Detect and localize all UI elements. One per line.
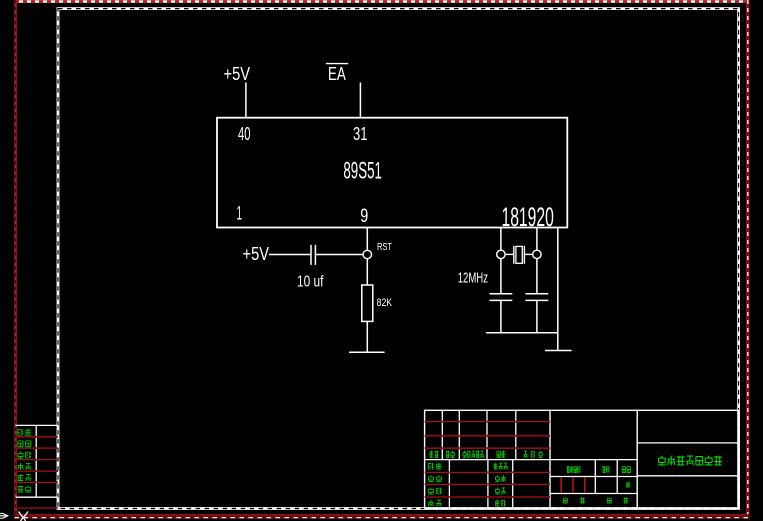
- capacitor C3 plates: [526, 294, 549, 301]
- svg-text:+5V: +5V: [224, 64, 251, 84]
- capacitor C2 plates: [490, 294, 513, 301]
- node RST junction circle: [363, 250, 371, 258]
- revision table verticals: [442, 410, 516, 459]
- svg-text:9: 9: [360, 205, 368, 227]
- middle section green labels: [563, 466, 630, 503]
- svg-text:181920: 181920: [502, 202, 554, 232]
- svg-text:40: 40: [238, 124, 251, 144]
- svg-text:1: 1: [237, 203, 243, 225]
- svg-text:RST: RST: [377, 242, 392, 253]
- revision header green labels: [430, 451, 543, 459]
- crystal Y1 12MHz symbol: [505, 246, 533, 264]
- wire capacitor C1 to RST node: [315, 254, 363, 256]
- title block outer white rect: [425, 410, 739, 508]
- wire pin 20 GND down to ground: [557, 228, 559, 351]
- wire pin 19 down to XTAL2 node: [536, 228, 538, 251]
- svg-text:89S51: 89S51: [343, 157, 382, 184]
- right section cell lines: [637, 443, 738, 476]
- left table red row separators: [16, 437, 58, 508]
- sign area green labels: [428, 463, 508, 507]
- wire capacitor C2 to ground rail: [500, 300, 502, 332]
- wire pin 9 down to RST node: [366, 228, 368, 251]
- node XTAL1 junction circle: [497, 250, 505, 258]
- ground rail wire joining C2 C3 and pin20: [486, 332, 558, 334]
- op chip 89S51 U1 box: [217, 118, 567, 228]
- sign area verticals: [449, 460, 512, 509]
- wire +5V to capacitor C1: [269, 254, 311, 256]
- wire EA to pin 31: [359, 83, 361, 118]
- wire resistor R1 to ground: [366, 321, 368, 352]
- svg-text:EA: EA: [328, 64, 346, 84]
- wire node to resistor R1: [366, 259, 368, 285]
- drawing title green text: [658, 456, 722, 466]
- outer paper border: bottom dark red band with white dashes: [15, 514, 750, 519]
- svg-text:82K: 82K: [377, 297, 393, 309]
- outer paper border: right dark red band with white dashes: [746, 0, 750, 519]
- svg-text:+5V: +5V: [243, 244, 270, 264]
- wire XTAL2 node to capacitor C3: [536, 259, 538, 294]
- title block main vertical dividers: [550, 410, 637, 508]
- middle section grid: [550, 460, 637, 494]
- ground bar under pin 20: [545, 350, 572, 352]
- wire +5V to pin 40: [245, 83, 247, 118]
- outer paper border: left red line with dark dashes: [14, 0, 16, 519]
- stage-mark red tick lines: [561, 477, 585, 493]
- svg-text:31: 31: [353, 124, 368, 144]
- sign area horizontal white line: [425, 459, 638, 461]
- outer paper border: top red/white dashed line: [15, 0, 748, 2]
- wire capacitor C3 to ground rail: [536, 300, 538, 332]
- wire pin 18 down to XTAL1 node: [500, 228, 502, 251]
- ground bar under R1: [349, 351, 385, 353]
- UCS icon Y cross at bottom-left: [19, 512, 29, 521]
- node XTAL2 junction circle: [533, 250, 541, 258]
- capacitor C1 10uf plates: [311, 245, 315, 265]
- resistor R1 82K body: [362, 285, 373, 321]
- net label EA with overline: [326, 64, 348, 84]
- left table green labels: [18, 429, 32, 492]
- UCS icon arrow at bottom-left: [0, 513, 8, 518]
- wire XTAL1 node to capacitor C2: [500, 259, 502, 294]
- sign area red row lines: [425, 472, 550, 497]
- svg-text:12MHz: 12MHz: [458, 270, 488, 286]
- revision table red row lines: [425, 422, 550, 449]
- svg-text:10 uf: 10 uf: [297, 274, 324, 291]
